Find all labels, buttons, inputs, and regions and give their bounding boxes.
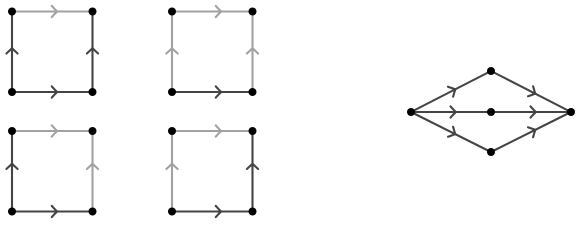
diamond graph D edge left-to-bottom (dark, arrow mid) [411,112,491,152]
square graph G2 node top-right [249,8,257,16]
diamond graph D edge left-to-top (dark, arrow mid) [411,71,491,112]
diamond graph D node center [487,108,495,116]
square graph G3 edge right (light, arrow up) [87,131,98,212]
square graph G2 node bottom-right [249,88,257,96]
square graph G4 node top-left [168,127,176,135]
square graph G4 edge top (light, arrow right) [172,125,253,136]
square graph G3 edge top (light, arrow right) [12,125,93,136]
square graph G2 edge left (light, arrow up) [166,12,177,93]
square graph G3 node top-left [8,127,16,135]
diamond graph D edge top-to-right (dark, arrow mid) [491,71,571,112]
square graph G4 node top-right [249,127,257,135]
square graph G1 edge right (dark, arrow up) [87,12,98,93]
square graph G3 node bottom-right [89,208,97,216]
square graph G4 edge left (light, arrow up) [166,131,177,212]
square graph G1 node bottom-right [89,88,97,96]
square graph G1 node top-left [8,8,16,16]
square graph G1 node top-right [89,8,97,16]
square graph G4 node bottom-right [249,208,257,216]
diamond graph D edge left-to-center (dark, arrow right) [411,106,491,117]
diamond graph D edge bottom-to-right (dark, arrow mid) [491,112,571,152]
diamond graph D node left [407,108,415,116]
square graph G1 edge bottom (dark, arrow right) [12,86,93,97]
square graph G1 node bottom-left [8,88,16,96]
square graph G2 node top-left [168,8,176,16]
square graph G2 edge top (light, arrow right) [172,6,253,17]
square graph G1 edge top (light, arrow right) [12,6,93,17]
square graph G1 edge left (dark, arrow up) [6,12,17,93]
square graph G2 edge bottom (dark, arrow right) [172,86,253,97]
square graph G3 node bottom-left [8,208,16,216]
diamond graph D node top [487,67,495,75]
square graph G3 edge left (dark, arrow up) [6,131,17,212]
diamond graph D edge center-to-right (dark, arrow right) [491,106,571,117]
square graph G2 edge right (light, arrow up) [247,12,258,93]
diamond graph D node bottom [487,148,495,156]
square graph G3 node top-right [89,127,97,135]
square graph G4 node bottom-left [168,208,176,216]
diamond graph D node right [567,108,575,116]
square graph G4 edge right (dark, arrow up) [247,131,258,212]
square graph G4 edge bottom (dark, arrow right) [172,206,253,217]
square graph G3 edge bottom (dark, arrow right) [12,206,93,217]
square graph G2 node bottom-left [168,88,176,96]
